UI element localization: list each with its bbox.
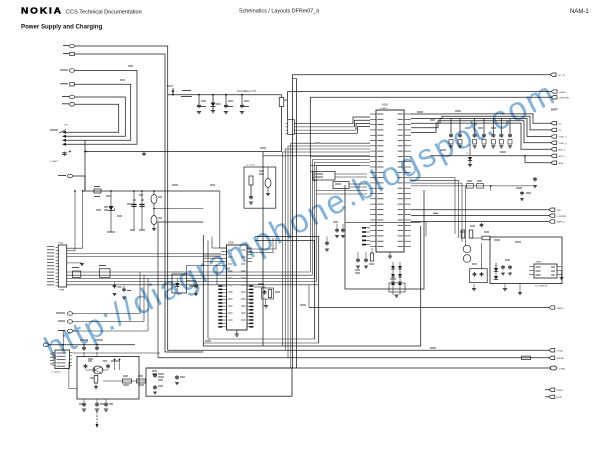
svg-text:DC_IN: DC_IN	[558, 75, 565, 77]
svg-text:N305: N305	[536, 262, 542, 264]
svg-text:PWB: PWB	[59, 290, 65, 292]
svg-text:LGND: LGND	[559, 368, 565, 370]
svg-text:X100: X100	[58, 243, 64, 245]
svg-text:SMPS: SMPS	[557, 308, 564, 310]
svg-text:Schematics / Layouts DFRm07_a: Schematics / Layouts DFRm07_a	[239, 9, 319, 15]
svg-text:Li-Ion Battery 3.7V: Li-Ion Battery 3.7V	[237, 90, 256, 93]
svg-text:V10: V10	[64, 125, 69, 127]
svg-text:nr_pwrbtn: nr_pwrbtn	[51, 371, 62, 374]
svg-text:V1: V1	[559, 123, 562, 125]
svg-text:nr_swclk: nr_swclk	[246, 164, 255, 167]
svg-text:Power Supply and Charging: Power Supply and Charging	[21, 24, 103, 31]
svg-text:ACP_1: ACP_1	[559, 149, 567, 152]
svg-text:NOKIA: NOKIA	[21, 6, 63, 15]
svg-text:D200: D200	[228, 242, 234, 245]
svg-text:N306: N306	[382, 104, 388, 107]
svg-text:CHAPS: CHAPS	[380, 107, 388, 110]
svg-text:N_CHARGE: N_CHARGE	[535, 285, 548, 288]
svg-text:http://diagramphone.blogspot.c: http://diagramphone.blogspot.com	[38, 74, 561, 367]
svg-text:CCS Technical Documentation: CCS Technical Documentation	[66, 10, 142, 16]
svg-text:LVGA: LVGA	[557, 350, 563, 353]
svg-text:ACP_2: ACP_2	[559, 155, 567, 158]
svg-text:CHRG: CHRG	[559, 92, 566, 94]
svg-text:ACR: ACR	[559, 162, 564, 165]
svg-text:BATT: BATT	[167, 84, 174, 88]
svg-text:BITR: BITR	[557, 397, 562, 399]
svg-text:CURCTRL: CURCTRL	[559, 98, 570, 100]
svg-text:CONTINT: CONTINT	[557, 216, 567, 218]
svg-text:V2: V2	[559, 130, 562, 132]
svg-text:BATT: BATT	[551, 108, 558, 112]
svg-text:RXGA: RXGA	[557, 357, 564, 360]
svg-text:VCHL_2: VCHL_2	[559, 143, 568, 145]
svg-text:PWDC: PWDC	[557, 390, 564, 392]
svg-text:V_BATT: V_BATT	[50, 160, 59, 163]
svg-text:VCHL_1: VCHL_1	[559, 137, 568, 139]
svg-text:SMPS_1: SMPS_1	[557, 222, 566, 224]
svg-text:NAM-1: NAM-1	[570, 9, 589, 15]
svg-text:TXD: TXD	[557, 210, 562, 212]
